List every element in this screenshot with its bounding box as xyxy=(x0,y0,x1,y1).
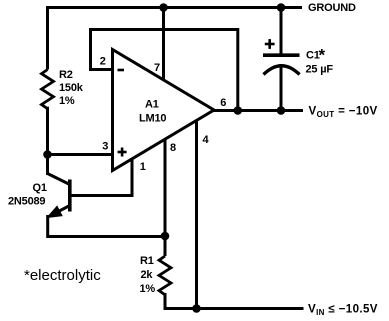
transistor Q1 emitter arrowhead xyxy=(48,207,62,218)
resistor R1 xyxy=(159,256,171,295)
svg-text:2N5089: 2N5089 xyxy=(8,196,45,208)
wire: R2 bottom to Q1 collector node xyxy=(46,107,49,175)
svg-text:1%: 1% xyxy=(59,95,75,107)
capacitor C1 top plate xyxy=(263,53,300,57)
junction dot: emitter wire / pin 8 / R1 node xyxy=(161,232,170,241)
op-amp non-inverting input plus sign xyxy=(118,148,127,157)
svg-text:7: 7 xyxy=(154,62,160,74)
svg-text:1: 1 xyxy=(140,161,146,173)
svg-text:VIN ≤ −10.5V: VIN ≤ −10.5V xyxy=(308,303,378,318)
svg-text:2: 2 xyxy=(100,56,106,68)
transistor Q1 collector lead xyxy=(48,174,70,185)
svg-text:GROUND: GROUND xyxy=(308,2,356,14)
svg-text:150k: 150k xyxy=(59,82,84,94)
svg-text:*electrolytic: *electrolytic xyxy=(24,267,101,284)
junction dot: R2 bottom / pin 3 node xyxy=(43,150,52,159)
svg-text:R2: R2 xyxy=(59,69,73,81)
resistor R2 xyxy=(42,70,54,109)
wire: pin 4 down to VIN rail xyxy=(195,119,198,309)
junction dot: pin 4 / VIN rail xyxy=(192,304,201,313)
svg-text:25 µF: 25 µF xyxy=(306,64,334,76)
junction dot: C1 bottom / VOUT rail xyxy=(277,106,286,115)
wire: feedback loop pin2 to output node xyxy=(91,30,238,111)
wire: pin 7 to ground rail xyxy=(162,8,165,82)
svg-text:1%: 1% xyxy=(140,283,156,295)
junction dot: pin 7 / ground rail xyxy=(159,3,168,12)
svg-text:*: * xyxy=(319,46,326,65)
svg-text:8: 8 xyxy=(170,142,176,154)
wire: ground rail (top) xyxy=(46,6,302,9)
wire: pin 8 down to R1 xyxy=(164,138,167,256)
capacitor C1 plus polarity mark xyxy=(265,39,275,49)
wire: left branch from ground rail to R2 top xyxy=(46,6,49,70)
wire: pin 3 input from node A xyxy=(48,153,115,156)
op-amp A1 triangle xyxy=(113,50,215,171)
svg-text:LM10: LM10 xyxy=(139,113,166,125)
wire: output pin 6 to VOUT xyxy=(213,109,303,112)
svg-text:R1: R1 xyxy=(140,255,154,267)
svg-text:Q1: Q1 xyxy=(33,182,47,194)
svg-text:A1: A1 xyxy=(145,99,159,111)
wire: Q1 emitter down to bottom wire and R1 node xyxy=(48,215,165,237)
svg-text:2k: 2k xyxy=(141,269,154,281)
capacitor C1 curved bottom plate xyxy=(264,66,300,75)
svg-text:3: 3 xyxy=(102,141,108,153)
wire: R1 bottom to VIN rail xyxy=(165,293,304,309)
transistor Q1 emitter lead xyxy=(52,206,70,215)
svg-text:VOUT = −10V: VOUT = −10V xyxy=(309,105,378,120)
wire: pin 1 down and left to Q1 base xyxy=(71,157,132,196)
op-amp inverting input minus sign xyxy=(118,69,125,72)
junction dot: feedback / output node xyxy=(234,106,243,115)
transistor Q1 base bar xyxy=(68,180,72,212)
svg-text:6: 6 xyxy=(220,97,226,109)
wire: C1 top lead xyxy=(280,8,283,55)
svg-text:4: 4 xyxy=(203,134,210,146)
junction dot: C1 top / ground rail xyxy=(277,3,286,12)
wire: C1 bottom lead to VOUT rail xyxy=(280,64,283,111)
